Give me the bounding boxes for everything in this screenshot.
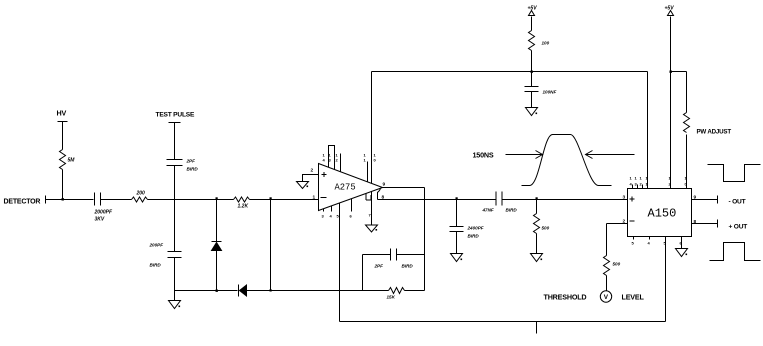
svg-text:1: 1	[635, 176, 638, 181]
capacitor C5 47NF BIRD coupling	[482, 192, 518, 213]
svg-text:5M: 5M	[68, 158, 76, 164]
wire R1 to main line	[62, 170, 64, 200]
svg-text:2: 2	[336, 158, 339, 163]
waveform negative pulse	[708, 165, 761, 182]
svg-text:1: 1	[630, 176, 633, 181]
svg-text:1: 1	[646, 182, 649, 187]
wire bottom clamp line	[175, 290, 238, 292]
wire test pulse down	[174, 123, 176, 160]
wire pin 8 jog	[378, 189, 381, 200]
wire HV to resistor	[62, 122, 64, 150]
wire C2 to main line	[174, 166, 176, 200]
svg-text:2000PF: 2000PF	[94, 210, 113, 216]
op-amp top pins 14 13 bridged	[329, 146, 335, 170]
svg-text:TEST PULSE: TEST PULSE	[156, 112, 195, 119]
wire feedback branch down	[270, 200, 272, 291]
svg-text:THRESHOLD: THRESHOLD	[544, 293, 587, 302]
wire R8 to source	[606, 276, 608, 291]
pin labels 11 10	[364, 153, 377, 163]
wire pin 2 to threshold	[607, 223, 628, 225]
source V threshold level	[600, 291, 611, 302]
HV connector	[58, 121, 68, 123]
wire bottom rail	[340, 321, 666, 323]
svg-text:500: 500	[542, 226, 550, 231]
svg-text:1: 1	[685, 176, 688, 181]
pin labels 14 13 12	[323, 153, 339, 163]
detector input connector	[45, 196, 47, 204]
A150 top stub pins	[633, 185, 643, 189]
wire feedback cap top right	[397, 254, 425, 256]
svg-text:2400PF: 2400PF	[467, 226, 484, 231]
wire output down to feedback	[424, 188, 426, 291]
wire pin 7 down	[366, 194, 371, 201]
wire feedback cap top left	[363, 254, 391, 256]
svg-text:2: 2	[669, 182, 672, 187]
svg-text:500: 500	[613, 262, 621, 267]
output connector -OUT	[717, 196, 719, 204]
svg-text:47NF: 47NF	[482, 208, 494, 213]
wire R3 to opamp	[250, 199, 319, 201]
test pulse connector	[169, 122, 181, 124]
arrow left pointer	[506, 151, 543, 159]
svg-text:DETECTOR: DETECTOR	[4, 199, 41, 206]
wire pin 9 output	[692, 199, 718, 201]
waveform gaussian pulse	[522, 135, 612, 186]
junction diode branch node	[216, 197, 218, 199]
svg-text:+ OUT: + OUT	[729, 224, 748, 231]
svg-text:8: 8	[694, 219, 697, 225]
svg-text:BIRD: BIRD	[506, 208, 518, 213]
ground at test pulse branch	[169, 291, 181, 309]
svg-text:6: 6	[350, 214, 353, 219]
ground at pin 7	[366, 225, 378, 232]
svg-text:A150: A150	[648, 207, 677, 221]
wire feedback left side	[362, 255, 364, 291]
junction test pulse node	[174, 200, 176, 252]
resistor R1 5M	[60, 150, 76, 170]
ground at A150	[676, 249, 688, 257]
ground at pin 2	[297, 182, 309, 189]
svg-text:BIRD: BIRD	[187, 167, 199, 172]
op-amp pin 6 stub	[351, 199, 353, 212]
A150 minus marker	[630, 220, 635, 222]
output connector +OUT	[717, 220, 719, 228]
svg-text:100: 100	[542, 41, 550, 46]
svg-text:1: 1	[669, 176, 672, 181]
junction HV node	[62, 198, 64, 200]
svg-text:9: 9	[383, 182, 386, 188]
svg-text:2PF: 2PF	[186, 159, 196, 164]
capacitor C6s 2400PF BIRD shunt	[450, 200, 484, 254]
resistor R3 1.2K	[234, 197, 250, 210]
svg-text:4: 4	[323, 158, 326, 163]
wire A150 ground pin	[681, 237, 683, 249]
resistor R5 500	[534, 200, 550, 254]
svg-text:A275: A275	[335, 183, 356, 193]
svg-text:1: 1	[313, 195, 316, 201]
svg-text:150NS: 150NS	[473, 151, 494, 160]
junction shunt cap node	[456, 197, 458, 199]
power +5V supply 2	[665, 6, 675, 189]
wire R6 to rail	[531, 51, 533, 72]
resistor R7 PW ADJUST	[684, 113, 732, 136]
svg-text:3: 3	[329, 158, 332, 163]
resistor R4 15K	[387, 288, 405, 300]
svg-text:1.2K: 1.2K	[238, 204, 249, 210]
wire A150 pin to bottom rail	[665, 237, 667, 322]
junction 500 resistor node	[536, 197, 538, 199]
svg-text:3KV: 3KV	[95, 217, 105, 223]
svg-text:V: V	[604, 294, 609, 301]
svg-text:0: 0	[685, 182, 688, 187]
resistor R8 500 threshold	[604, 256, 621, 276]
svg-text:- OUT: - OUT	[729, 199, 746, 206]
power +5V supply 1	[528, 6, 538, 31]
svg-text:15K: 15K	[387, 295, 396, 300]
op-amp bottom pins 3 4 stubs	[324, 206, 332, 212]
wire output pin 9	[382, 187, 425, 189]
svg-text:+5V: +5V	[665, 6, 675, 12]
A150 bottom stub pins	[634, 237, 650, 240]
diode D1	[212, 200, 222, 291]
svg-text:200: 200	[136, 191, 146, 197]
wire 15K to output vertical	[405, 290, 425, 292]
junction +5V decoupling node	[531, 71, 533, 73]
svg-text:BIRD: BIRD	[402, 264, 414, 269]
op-amp top pin 11 stub	[367, 162, 369, 182]
svg-text:100NF: 100NF	[543, 90, 557, 95]
svg-text:1: 1	[364, 158, 367, 163]
svg-text:2PF: 2PF	[374, 264, 384, 269]
wire rail down to A150 pin 11	[647, 72, 649, 189]
svg-text:4: 4	[330, 214, 333, 219]
wire pin 5 to bottom rail	[339, 203, 341, 322]
ground at shunt cap	[451, 254, 463, 262]
svg-text:1: 1	[640, 176, 643, 181]
wire main input line left	[46, 199, 94, 201]
wire C3 to bottom node	[174, 258, 176, 291]
junction D1 bottom	[216, 290, 218, 292]
capacitor C1 2000PF 3KV	[94, 193, 113, 223]
junction clamp-feedback node	[270, 289, 272, 291]
op-amp plus input marker	[322, 172, 327, 177]
arrow right pointer	[586, 151, 635, 159]
svg-text:LEVEL: LEVEL	[622, 293, 645, 302]
wire bottom rail stub	[536, 322, 538, 334]
svg-text:3: 3	[322, 214, 325, 219]
wire C1 to R2	[101, 199, 132, 201]
svg-text:0: 0	[374, 158, 377, 163]
waveform positive pulse	[710, 243, 761, 261]
wire pin2 to ground	[303, 175, 319, 182]
wire C5 to A150	[502, 199, 628, 201]
wire pin 10 to top rail	[371, 72, 373, 184]
wire PW branch	[671, 72, 687, 113]
svg-text:4: 4	[648, 241, 651, 246]
svg-text:BIRD: BIRD	[150, 263, 162, 268]
svg-text:5: 5	[632, 241, 635, 246]
capacitor C3 200PF BIRD	[149, 243, 182, 268]
svg-text:3: 3	[623, 195, 626, 201]
A150 top pin labels	[630, 176, 688, 187]
op-amp minus input marker	[321, 197, 327, 199]
op-amp U1 A275	[319, 164, 383, 211]
resistor R6 100	[529, 31, 550, 51]
wire threshold down	[606, 224, 608, 256]
svg-text:2: 2	[311, 168, 314, 174]
svg-text:BIRD: BIRD	[468, 234, 480, 239]
A150 plus marker	[630, 197, 635, 202]
diode D2	[239, 285, 272, 297]
wire pin 8 line to C5	[378, 199, 496, 201]
svg-text:PW ADJUST: PW ADJUST	[697, 129, 732, 136]
capacitor C7 100NF	[525, 72, 557, 108]
wire R7 to A150	[686, 135, 688, 189]
ground at C7	[526, 108, 538, 116]
capacitor C2 2PF BIRD	[167, 159, 199, 172]
junction feedback branch node	[270, 197, 272, 199]
comparator U2 A150	[628, 189, 692, 237]
wire top rail	[372, 71, 648, 73]
wire clamp line to feedback node	[271, 290, 389, 292]
ground at R5	[531, 254, 543, 262]
wire pin 8 output	[692, 223, 718, 225]
svg-text:+5V: +5V	[528, 6, 538, 12]
wire R2 to test pulse node	[148, 199, 234, 201]
op-amp top pin 12 stub	[340, 154, 342, 172]
svg-text:HV: HV	[57, 109, 67, 118]
capacitor C4f 2PF BIRD feedback	[374, 249, 414, 269]
resistor R2 200	[132, 191, 148, 203]
junction PW branch	[670, 71, 672, 73]
svg-text:200PF: 200PF	[149, 243, 164, 248]
svg-text:1: 1	[646, 176, 649, 181]
